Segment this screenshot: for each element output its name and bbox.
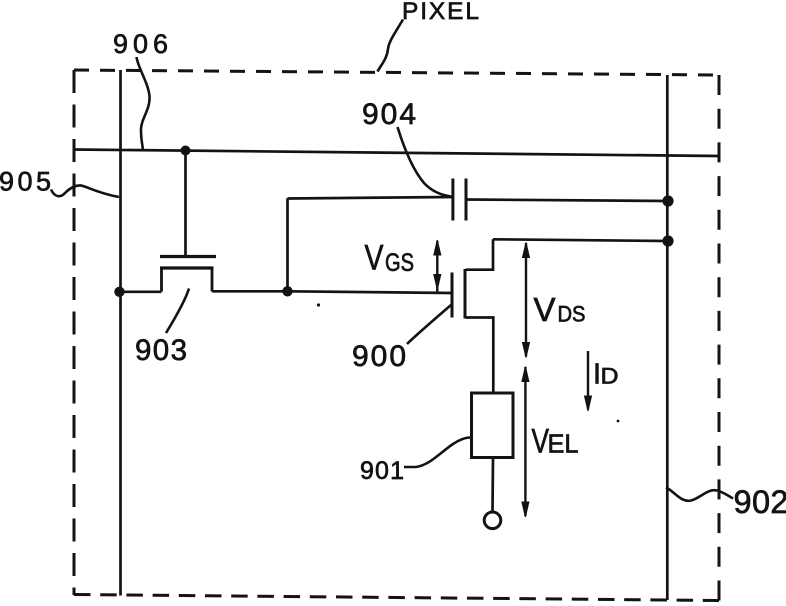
svg-text:PIXEL: PIXEL — [402, 0, 479, 25]
wire: drain of 903 to gate node — [212, 290, 288, 293]
node: gate storage node — [282, 286, 292, 296]
svg-text:900: 900 — [352, 340, 406, 373]
svg-text:904: 904 — [362, 98, 416, 131]
leader to 904 — [398, 127, 452, 197]
speck — [317, 303, 320, 306]
node: junction on 905 line — [114, 287, 124, 297]
wire: capacitor right plate to supply line — [466, 200, 668, 202]
svg-text:GS: GS — [385, 249, 414, 277]
Vel arrow — [522, 367, 529, 518]
Vds arrow — [523, 243, 530, 358]
svg-text:906: 906 — [113, 29, 168, 59]
svg-text:V: V — [532, 423, 550, 461]
leader to 906 — [137, 57, 150, 150]
transistor 903 (switching TFT) — [160, 257, 216, 292]
node: junction 906/gate of 903 — [181, 146, 191, 156]
wire: scan line 906 horizontal — [74, 150, 719, 157]
wire: 905 to source of 903 — [119, 290, 162, 293]
svg-text:905: 905 — [0, 167, 51, 197]
svg-text:V: V — [534, 291, 556, 328]
transistor 900 (drive TFT) — [452, 239, 493, 393]
pixel boundary dashed box — [74, 70, 719, 601]
svg-text:D: D — [601, 364, 619, 389]
svg-text:DS: DS — [558, 302, 586, 327]
capacitor 904 — [453, 179, 466, 221]
leader to 905 — [51, 185, 119, 197]
wire: supply to drain of 900 — [493, 239, 668, 241]
leader to 903 — [166, 289, 189, 334]
EL element 901 box — [472, 393, 514, 458]
terminal circle — [484, 512, 501, 529]
svg-text:V: V — [365, 239, 385, 278]
Id arrow — [585, 351, 592, 411]
leader to 900 — [407, 305, 451, 344]
wire: gate of 900 — [288, 291, 453, 293]
leader to 902 — [666, 488, 733, 501]
wire: gate lead of 903 — [184, 150, 187, 256]
leader to 901 — [404, 438, 470, 468]
svg-text:903: 903 — [135, 334, 187, 367]
wire: supply line 902 vertical — [666, 75, 669, 600]
svg-text:902: 902 — [734, 484, 786, 520]
node: drain/supply junction — [662, 235, 673, 246]
svg-text:EL: EL — [548, 431, 579, 459]
Vgs arrow — [434, 240, 441, 292]
wire: to capacitor left plate — [288, 197, 454, 199]
node: capacitor/supply junction — [662, 195, 673, 206]
wire: below 901 — [491, 458, 494, 513]
wire: data line 905 vertical — [119, 70, 122, 596]
leader to PIXEL — [378, 20, 404, 72]
svg-text:901: 901 — [360, 457, 404, 485]
wire: storage node up to capacitor — [286, 198, 289, 291]
